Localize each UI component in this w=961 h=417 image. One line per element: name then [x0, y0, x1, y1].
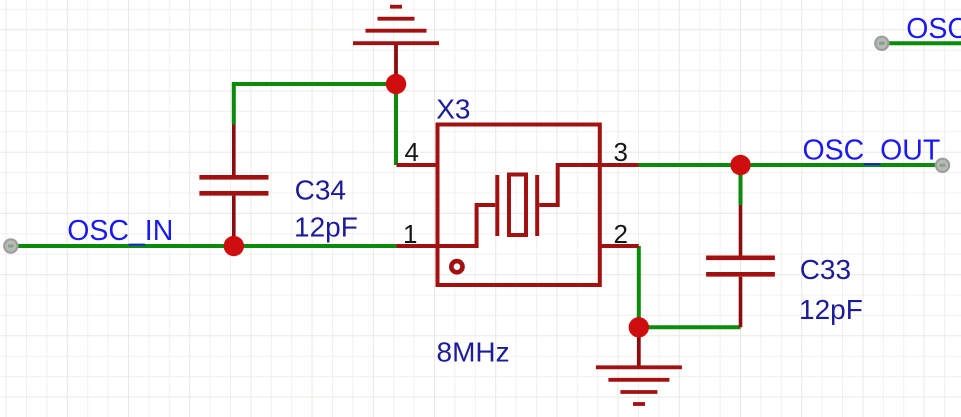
wire OSC_IN horizontal [4, 244, 397, 248]
pin 4 [397, 163, 438, 167]
wire junction to pin 4 vertical [394, 84, 398, 165]
wire pin 2 vertical [637, 246, 641, 327]
ground (top, flipped up) [353, 7, 439, 84]
junction dot at top ground [386, 74, 406, 94]
pin 3 [600, 163, 639, 167]
crystal X3 body box [438, 125, 600, 286]
svg-text:4: 4 [405, 137, 419, 167]
wire OSC_OUT horizontal [639, 163, 943, 167]
wire top horizontal to C34 [234, 82, 396, 86]
port terminal OSC_OUT [936, 159, 949, 172]
wire ground horizontal to C33 [639, 325, 741, 329]
crystal X3 internal symbol [437, 165, 600, 246]
svg-text:C34: C34 [295, 174, 346, 205]
capacitor C34 [199, 125, 268, 247]
svg-text:OSC_IN: OSC_IN [67, 215, 173, 247]
svg-text:12pF: 12pF [294, 212, 358, 243]
wire OSC top right [877, 41, 961, 45]
svg-text:1: 1 [403, 219, 417, 249]
junction dot on OSC_IN at C34 [224, 236, 244, 256]
svg-text:8MHz: 8MHz [437, 337, 510, 368]
pin 1 [397, 244, 438, 248]
svg-text:3: 3 [614, 137, 628, 167]
svg-text:X3: X3 [436, 93, 470, 124]
wire C33 top vertical [739, 165, 743, 205]
crystal X3 pin-1 indicator circle [451, 261, 462, 272]
svg-text:OSC_OUT: OSC_OUT [906, 13, 961, 45]
port terminal OSC top right [875, 37, 888, 50]
capacitor C33 [706, 205, 775, 327]
junction dot on OSC_OUT at C33 [730, 155, 750, 175]
svg-text:C33: C33 [800, 254, 851, 285]
pin 2 [600, 244, 639, 248]
port terminal OSC_IN [4, 239, 17, 252]
wire C34 top vertical [232, 82, 236, 125]
junction dot at bottom ground [629, 317, 649, 337]
svg-text:OSC_OUT: OSC_OUT [803, 134, 941, 166]
ground (bottom) [596, 327, 682, 404]
svg-text:2: 2 [614, 219, 628, 249]
svg-text:12pF: 12pF [799, 294, 863, 325]
